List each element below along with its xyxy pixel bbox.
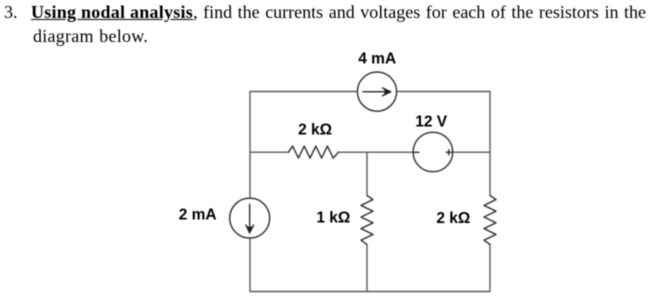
wire top-right segment — [397, 92, 490, 196]
current source I1 arrow — [363, 91, 388, 93]
problem text line 1 — [4, 3, 18, 21]
voltage source V1 12V circle — [413, 132, 453, 172]
resistor R3 2k vertical — [484, 196, 496, 245]
wire middle horizontal right lead — [453, 151, 490, 153]
svg-text:2 kΩ: 2 kΩ — [436, 210, 470, 227]
svg-text:12 V: 12 V — [415, 113, 448, 130]
wire middle horizontal mid segment — [339, 151, 414, 153]
wire 1k branch top lead — [366, 152, 368, 195]
resistor R2 1k vertical — [361, 196, 373, 245]
wire bottom-right segment — [367, 245, 490, 292]
problem text line 2 — [33, 27, 148, 45]
svg-text:2 mA: 2 mA — [179, 206, 217, 223]
current source I2 2mA circle — [230, 198, 270, 238]
current source I2 arrow — [249, 204, 251, 229]
wire middle horizontal left lead — [250, 151, 289, 153]
resistor R1 2k horizontal — [289, 146, 339, 158]
svg-text:4 mA: 4 mA — [358, 50, 396, 67]
wire left-bottom segment — [250, 238, 367, 291]
current source I1 4mA circle — [357, 72, 396, 111]
svg-text:2 kΩ: 2 kΩ — [298, 122, 332, 139]
voltage source V1 minus sign — [415, 151, 419, 153]
voltage source V1 plus sign — [446, 151, 451, 153]
wire 1k branch bottom lead — [366, 245, 368, 292]
wire top-left segment — [250, 92, 357, 199]
svg-text:1 kΩ: 1 kΩ — [316, 209, 350, 226]
